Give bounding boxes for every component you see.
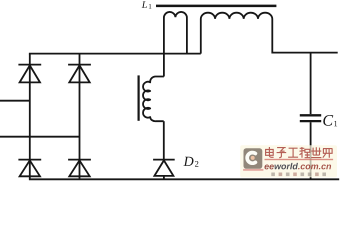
wire AC input bottom bbox=[0, 136, 80, 138]
wire capacitor rail bottom bbox=[310, 122, 312, 179]
diode D bridge bottom-left bbox=[18, 160, 41, 177]
label D2 bbox=[183, 157, 198, 167]
diode D2 bbox=[153, 160, 175, 180]
big chinese text 电子工程世界 (simulated) bbox=[266, 147, 333, 158]
wire middle branch drop bbox=[163, 54, 165, 77]
wire bridge left rail bbox=[29, 54, 31, 180]
wire bottom rail bbox=[29, 178, 339, 180]
label L1 bbox=[142, 1, 152, 8]
label C1 bbox=[323, 115, 337, 126]
wire bridge top rail to L1 bbox=[29, 53, 201, 55]
diode D bridge top-left bbox=[18, 65, 41, 83]
inductor winding (flyback coil) bbox=[143, 76, 164, 121]
capacitor C1 plates bbox=[300, 114, 321, 116]
wire AC input top bbox=[0, 100, 30, 102]
small bottom row (simulated tiny chars) bbox=[271, 173, 326, 177]
red underline bbox=[265, 159, 334, 160]
wire coil to D2 bbox=[163, 121, 165, 159]
inductor L1 right winding bbox=[201, 13, 338, 54]
logo square bbox=[244, 148, 263, 169]
inductor L1 left winding bbox=[164, 12, 187, 54]
diode D bridge top-right bbox=[68, 65, 91, 83]
inductor L1 core bar bbox=[156, 5, 276, 8]
diode D bridge bottom-right bbox=[68, 160, 91, 177]
wire capacitor rail top bbox=[310, 53, 312, 115]
wire bridge right rail bbox=[79, 54, 81, 180]
eeworld.com.cn bbox=[264, 163, 331, 170]
inductor core bar (flyback) bbox=[138, 75, 140, 120]
watermark eeworld bbox=[240, 145, 337, 177]
